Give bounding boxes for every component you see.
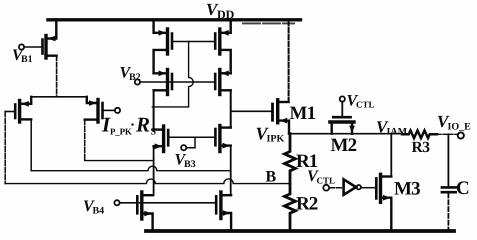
svg-text:IAM: IAM <box>387 127 408 138</box>
resistor R2 <box>285 184 296 231</box>
wire QL source down <box>30 119 32 170</box>
scan streak under rail <box>243 22 294 24</box>
terminal VB3 <box>181 145 186 150</box>
wire VB2 gate row2 <box>140 81 214 83</box>
svg-text:B1: B1 <box>21 54 33 65</box>
wire inverter to M3 gate <box>361 187 375 189</box>
wire QL gate lead <box>5 111 14 113</box>
wire left column lower <box>153 146 155 195</box>
wire VCTL to inverter <box>329 187 343 189</box>
terminal VB2 <box>135 79 140 84</box>
wire2 QL source to right column, hop over left column <box>31 166 231 170</box>
terminal IP_PK input <box>115 108 120 113</box>
transistor M2 (lateral) <box>330 102 355 134</box>
wire VB3 gates <box>169 137 214 148</box>
svg-text:B3: B3 <box>184 159 196 170</box>
ground rail <box>146 229 454 233</box>
svg-text:IO_E: IO_E <box>448 122 472 133</box>
wire QB1 drain down <box>56 56 58 97</box>
svg-text:M2: M2 <box>331 135 357 156</box>
svg-text:B2: B2 <box>129 72 141 83</box>
wire QR source down <box>84 120 86 161</box>
wire right column upper <box>230 90 232 127</box>
capacitor C <box>447 134 449 186</box>
svg-text:CTL: CTL <box>317 176 336 186</box>
wire gate row1 cascode <box>173 41 214 43</box>
wire3 node B long wire with hops <box>5 179 290 184</box>
wire left column <box>153 90 155 129</box>
terminal VIO_E <box>458 132 464 138</box>
transistor M3 <box>376 174 391 231</box>
svg-text:M1: M1 <box>290 103 316 124</box>
wire QR gate lead <box>104 109 115 111</box>
transistor Q4 (row2 right PMOS) <box>215 70 231 95</box>
svg-text:C: C <box>456 178 470 199</box>
transistor Q6 (VB3 row right) <box>215 126 230 152</box>
svg-text:R2: R2 <box>296 194 318 215</box>
node VDD label <box>206 0 235 22</box>
wire VIAM to M3 drain <box>390 134 392 177</box>
transistor QR (right of IP_PK pair, mirrored) <box>85 97 103 122</box>
terminal VB1 <box>19 44 24 49</box>
wire1 QR source to left column <box>85 160 153 162</box>
svg-text:DD: DD <box>217 8 235 22</box>
inverter U1 <box>344 179 356 194</box>
node B label <box>266 169 277 186</box>
svg-text:B: B <box>266 169 277 186</box>
svg-text:R: R <box>135 113 150 137</box>
terminal VCTL (M2 gate) <box>340 96 345 101</box>
transistor Q5 (VB3 row left, mirrored) <box>154 126 169 152</box>
resistor R1 <box>285 134 296 184</box>
wire QL gate down to node B <box>4 112 6 184</box>
wire VIPK node <box>289 133 402 135</box>
wire R3 to output <box>437 133 457 135</box>
svg-text:CTL: CTL <box>356 100 375 110</box>
transistor QL (left of IP_PK pair) <box>15 97 31 122</box>
transistor Q8 (VB4 row right NMOS) <box>216 192 231 231</box>
node VIAM label <box>376 118 408 138</box>
node VIPK label <box>256 124 285 145</box>
transistor Q1 (row1 left PMOS, mirrored) <box>154 20 172 74</box>
wire VB1 gate lead <box>24 46 41 48</box>
resistor R3 <box>402 131 437 139</box>
wire right column lower <box>230 146 232 196</box>
terminal VCTL (inverter input) <box>323 185 329 191</box>
svg-text:M3: M3 <box>394 179 420 200</box>
transistor Q2 (row1 right PMOS) <box>215 20 231 74</box>
transistor Q7 (VB4 row left NMOS) <box>137 192 152 231</box>
terminal VB4 <box>114 200 119 205</box>
VDD rail <box>48 18 301 21</box>
transistor M1 <box>273 100 290 134</box>
wire M1 gate <box>231 110 271 112</box>
wire diff pair drain connection <box>31 96 86 98</box>
wire M1 source to VDD <box>288 20 290 102</box>
svg-text:R3: R3 <box>412 139 431 156</box>
svg-text:P_PK: P_PK <box>110 127 132 137</box>
svg-text:·: · <box>130 118 135 134</box>
wire VB4 gate row <box>120 202 215 204</box>
transistor Q3 (row2 left PMOS, mirrored) <box>154 70 172 95</box>
transistor QB1 (VB1 PMOS) <box>43 21 57 58</box>
svg-text:IPK: IPK <box>267 134 285 145</box>
svg-text:B4: B4 <box>93 206 105 217</box>
wire diode connection with hop <box>152 42 193 107</box>
